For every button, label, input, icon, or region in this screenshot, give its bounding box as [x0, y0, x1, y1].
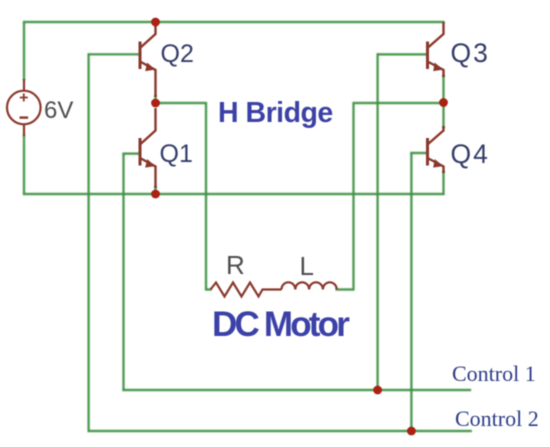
svg-text:H Bridge: H Bridge [218, 97, 333, 129]
node: Control 2 / Q4 base junction [407, 427, 416, 436]
wire Q1 emitter stub to bottom rail [154, 187, 156, 194]
wire Q2 base horizontal [89, 53, 139, 55]
wire Control 1 line [124, 389, 471, 391]
svg-text:R: R [226, 250, 245, 280]
voltage source V1 6V [7, 79, 41, 136]
transistor Q4 [428, 126, 444, 173]
node: Control 1 / Q3 base junction [373, 386, 382, 395]
svg-text:DC Motor: DC Motor [212, 305, 350, 344]
svg-text:L: L [300, 251, 314, 281]
wire Control 2 line [89, 430, 471, 432]
wire Q3 base horizontal [378, 53, 427, 55]
wire Q4 base horizontal [411, 152, 426, 154]
svg-text:Q2: Q2 [161, 40, 194, 68]
wire left rail upper [23, 22, 25, 79]
wire node B to motor right terminal [337, 103, 444, 290]
wire node A to motor left terminal [156, 103, 211, 290]
svg-text:Control 1: Control 1 [452, 361, 536, 386]
wire Q4 collector stub from node B [442, 103, 444, 127]
transistor Q3 [428, 22, 444, 77]
svg-text:6V: 6V [44, 97, 73, 124]
svg-text:Q4: Q4 [451, 139, 490, 169]
wire Q2 emitter stub to node A [154, 96, 156, 103]
wire Q4 emitter stub to bottom rail [442, 172, 444, 194]
wire Q2 base vertical drop [87, 54, 89, 431]
resistor R (motor winding resistance) [211, 283, 282, 297]
svg-text:Q3: Q3 [451, 38, 490, 68]
transistor Q1 [140, 108, 156, 188]
wire Q1 base horizontal [124, 153, 140, 155]
node A: Q2 emitter / Q1 collector junction [151, 99, 160, 108]
svg-text:Control 2: Control 2 [455, 406, 539, 431]
wire top rail [24, 21, 444, 23]
node: bottom rail / Q1 emitter junction [151, 190, 160, 199]
wire Q4 base vertical drop [410, 153, 412, 431]
wire left rail lower [23, 136, 25, 194]
wire bottom rail [24, 193, 444, 195]
node B: Q3 emitter / Q4 collector junction [439, 98, 448, 107]
svg-text:Q1: Q1 [160, 140, 193, 168]
wire Q3 base vertical drop [377, 54, 379, 390]
wire Q3 emitter stub to node B [442, 76, 444, 103]
node: top rail / Q2 collector junction [151, 18, 160, 27]
inductor L (motor winding inductance) [282, 282, 337, 289]
transistor Q2 [140, 22, 156, 97]
wire Q1 base vertical drop [122, 154, 124, 390]
